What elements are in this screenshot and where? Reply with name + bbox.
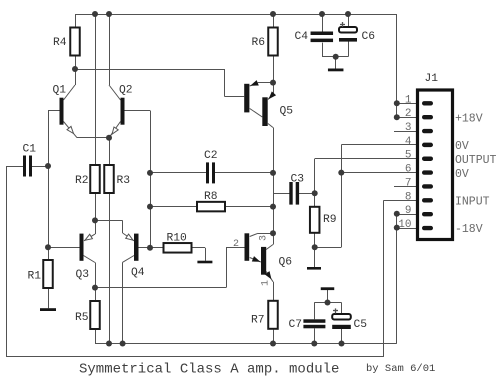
- svg-text:2: 2: [405, 108, 412, 120]
- svg-text:OUTPUT: OUTPUT: [455, 154, 497, 167]
- svg-text:R6: R6: [252, 37, 266, 49]
- svg-text:R10: R10: [167, 233, 188, 245]
- svg-text:R4: R4: [53, 37, 67, 49]
- svg-text:R8: R8: [204, 191, 218, 203]
- svg-text:Q5: Q5: [280, 106, 294, 118]
- svg-text:3: 3: [259, 235, 270, 241]
- svg-text:10: 10: [398, 219, 411, 231]
- svg-text:-18V: -18V: [455, 223, 483, 236]
- svg-text:R3: R3: [117, 175, 131, 187]
- svg-text:Q1: Q1: [53, 85, 67, 97]
- svg-text:R7: R7: [251, 315, 265, 327]
- svg-text:0V: 0V: [455, 168, 469, 181]
- svg-text:2: 2: [233, 239, 239, 250]
- svg-text:0V: 0V: [455, 140, 469, 153]
- svg-text:3: 3: [405, 122, 412, 134]
- svg-text:9: 9: [405, 205, 412, 217]
- svg-text:1: 1: [261, 280, 272, 286]
- svg-text:by Sam 6/01: by Sam 6/01: [366, 363, 435, 375]
- svg-text:R2: R2: [75, 175, 89, 187]
- svg-text:C1: C1: [23, 144, 37, 156]
- svg-text:C3: C3: [291, 174, 305, 186]
- svg-text:5: 5: [405, 150, 412, 162]
- svg-text:C4: C4: [295, 31, 309, 43]
- svg-text:INPUT: INPUT: [455, 196, 490, 209]
- svg-text:C2: C2: [204, 150, 218, 162]
- svg-text:4: 4: [405, 136, 412, 148]
- svg-text:Q3: Q3: [76, 269, 90, 281]
- svg-text:R5: R5: [75, 312, 89, 324]
- svg-text:Q4: Q4: [131, 267, 145, 279]
- svg-text:C6: C6: [362, 31, 376, 43]
- svg-text:Symmetrical Class A amp. modul: Symmetrical Class A amp. module: [79, 362, 339, 377]
- svg-text:R9: R9: [323, 214, 337, 226]
- svg-text:Q6: Q6: [279, 257, 293, 269]
- svg-text:7: 7: [405, 177, 412, 189]
- svg-text:C7: C7: [289, 319, 303, 331]
- svg-text:+18V: +18V: [455, 113, 483, 126]
- svg-text:8: 8: [405, 191, 412, 203]
- svg-text:R1: R1: [28, 271, 42, 283]
- svg-text:Q2: Q2: [119, 85, 133, 97]
- svg-text:6: 6: [405, 164, 412, 176]
- svg-text:J1: J1: [425, 73, 439, 85]
- svg-text:C5: C5: [354, 319, 368, 331]
- svg-text:1: 1: [405, 94, 412, 106]
